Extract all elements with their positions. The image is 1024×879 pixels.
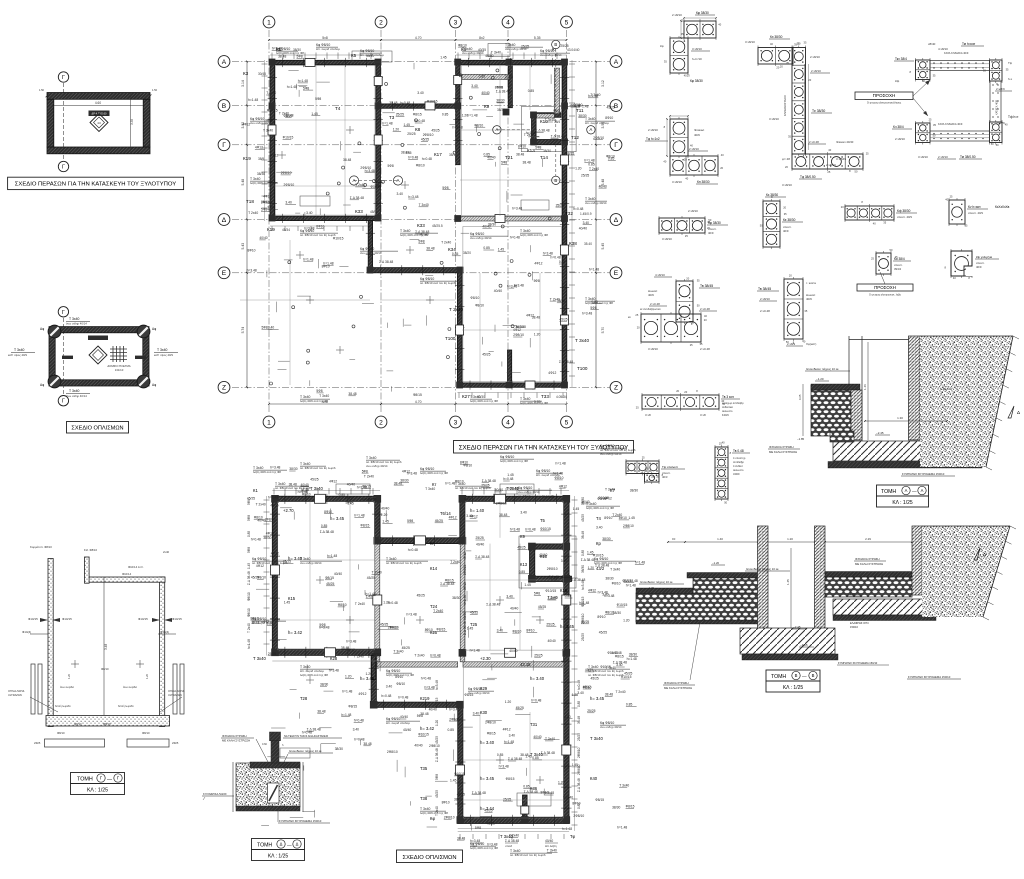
svg-text:Σ.Δ 38.48: Σ.Δ 38.48 bbox=[307, 728, 321, 732]
svg-text:8Ф10: 8Ф10 bbox=[390, 625, 398, 629]
svg-text:38/30: 38/30 bbox=[263, 536, 271, 540]
svg-text:К40: К40 bbox=[590, 776, 598, 781]
section G-G annotations bbox=[8, 545, 185, 745]
svg-text:όλ. Ф8/10 ανά τον Кη λωρίδ: όλ. Ф8/10 ανά τον Кη λωρίδ bbox=[300, 466, 336, 470]
svg-text:Ф10/15: Ф10/15 bbox=[267, 109, 278, 113]
svg-text:Т 2х40: Т 2х40 bbox=[548, 596, 558, 600]
svg-text:38/9: 38/9 bbox=[258, 157, 264, 161]
svg-text:h=0.48: h=0.48 bbox=[408, 156, 418, 160]
svg-text:h=0.48: h=0.48 bbox=[577, 680, 581, 690]
svg-text:Ф10/15: Ф10/15 bbox=[553, 109, 564, 113]
svg-text:5Ф8: 5Ф8 bbox=[435, 774, 439, 780]
svg-text:±0: ±0 bbox=[672, 537, 676, 541]
svg-text:38.48: 38.48 bbox=[343, 158, 351, 162]
svg-text:Δ: Δ bbox=[614, 217, 619, 224]
svg-text:Ф10/15: Ф10/15 bbox=[545, 589, 556, 593]
svg-text:2Ф8/10: 2Ф8/10 bbox=[284, 183, 295, 187]
svg-text:1.45: 1.45 bbox=[450, 779, 457, 783]
svg-text:ΚΛ : 1/25: ΚΛ : 1/25 bbox=[87, 788, 108, 794]
svg-text:30/45: 30/45 bbox=[258, 72, 266, 76]
detail D-D bbox=[202, 732, 342, 823]
svg-text:h= 3.45: h= 3.45 bbox=[560, 624, 575, 629]
svg-text:Ф10/15: Ф10/15 bbox=[371, 185, 382, 189]
svg-text:ΚΑΤΑ.ΚΛΙΜΑΚΑ 40/9: ΚΑΤΑ.ΚΛΙΜΑΚΑ 40/9 bbox=[938, 122, 963, 126]
svg-text:όλ. Ф8/10 ανά τον Кη λωρίδ: όλ. Ф8/10 ανά τον Кη λωρίδ bbox=[300, 233, 336, 237]
svg-text:38/4: 38/4 bbox=[554, 120, 560, 124]
svg-text:3 х8: 3 х8 bbox=[700, 413, 706, 417]
top plan: walls room A (grid1-2) bbox=[270, 60, 381, 273]
svg-text:Т 2х40: Т 2х40 bbox=[435, 806, 439, 816]
svg-text:h-ст/10: h-ст/10 bbox=[692, 57, 702, 61]
svg-text:1.45: 1.45 bbox=[347, 501, 354, 505]
svg-text:h=0.48: h=0.48 bbox=[363, 216, 373, 220]
svg-text:Ф8/10: Ф8/10 bbox=[463, 463, 472, 467]
svg-text:Г: Г bbox=[62, 165, 65, 171]
bottom plan: scattered annotations bbox=[247, 460, 645, 852]
detail d12 small notch bbox=[945, 249, 1000, 280]
svg-text:h=0.48: h=0.48 bbox=[398, 696, 408, 700]
svg-text:άνω λωρίδα: άνω λωρίδα bbox=[123, 685, 137, 689]
svg-text:Е: Е bbox=[222, 270, 227, 277]
detail d6 vbar bbox=[760, 193, 803, 249]
svg-text:1.45/0.9: 1.45/0.9 bbox=[580, 212, 592, 216]
svg-text:Тє 38/30: Тє 38/30 bbox=[812, 109, 825, 113]
svg-text:h=3.48: h=3.48 bbox=[304, 227, 314, 231]
svg-text:1.20: 1.20 bbox=[393, 128, 400, 132]
svg-text:h=1.48: h=1.48 bbox=[627, 657, 637, 661]
svg-text:38.48: 38.48 bbox=[348, 392, 356, 396]
svg-text:h=1.48: h=1.48 bbox=[562, 827, 572, 831]
svg-text:3.40: 3.40 bbox=[285, 201, 292, 205]
svg-text:5Ф8: 5Ф8 bbox=[590, 306, 596, 310]
svg-text:0.85: 0.85 bbox=[528, 89, 535, 93]
svg-text:Т 2х40: Т 2х40 bbox=[433, 609, 443, 613]
svg-text:К19: К19 bbox=[267, 227, 275, 232]
svg-text:40/40: 40/40 bbox=[482, 224, 490, 228]
svg-text:38.48: 38.48 bbox=[532, 315, 540, 319]
prosoxh box 1 bbox=[855, 80, 930, 116]
svg-text:4Ф12: 4Ф12 bbox=[242, 122, 250, 126]
svg-text:1.45: 1.45 bbox=[311, 112, 318, 116]
svg-text:38/30: 38/30 bbox=[463, 612, 467, 620]
svg-text:h=0.48: h=0.48 bbox=[510, 236, 520, 240]
svg-text:Δπ. λωριδ υποδομ: Δπ. λωριδ υποδομ bbox=[386, 721, 410, 725]
svg-text:h=3.48: h=3.48 bbox=[581, 580, 585, 590]
svg-text:3 х8/10: 3 х8/10 bbox=[782, 183, 792, 187]
svg-text:ΜΕ ΚΑΛΗ ΣΥΣΤΡΩΣΗ: ΜΕ ΚΑΛΗ ΣΥΣΤΡΩΣΗ bbox=[222, 739, 250, 743]
svg-text:h=0.48: h=0.48 bbox=[408, 548, 418, 552]
svg-text:0.85: 0.85 bbox=[577, 701, 581, 707]
svg-text:45/25: 45/25 bbox=[487, 821, 495, 825]
svg-text:2 х0.48: 2 х0.48 bbox=[760, 309, 770, 313]
svg-text:0.85: 0.85 bbox=[448, 728, 455, 732]
svg-text:Т 2х40: Т 2х40 bbox=[616, 690, 626, 694]
bottom plan: inner room bbox=[519, 536, 576, 588]
svg-text:5Ф8: 5Ф8 bbox=[417, 714, 423, 718]
svg-text:4Ф12: 4Ф12 bbox=[588, 588, 596, 592]
svg-text:Ф8/10: Ф8/10 bbox=[574, 103, 583, 107]
svg-text:h=1.48: h=1.48 bbox=[248, 98, 258, 102]
svg-text:Δπ.λαβη: Δπ.λαβη bbox=[545, 844, 557, 848]
svg-text:2Ф8/10: 2Ф8/10 bbox=[265, 518, 276, 522]
svg-text:ΠΡΟΣΟΧΗ: ΠΡΟΣΟΧΗ bbox=[874, 285, 896, 290]
svg-text:40/40: 40/40 bbox=[381, 507, 389, 511]
svg-text:4Ф12: 4Ф12 bbox=[263, 194, 271, 198]
svg-text:5Ф8: 5Ф8 bbox=[407, 519, 413, 523]
svg-text:h=1.48: h=1.48 bbox=[504, 740, 514, 744]
svg-text:К27: К27 bbox=[462, 394, 470, 399]
svg-text:4 υποστηρ: 4 υποστηρ bbox=[733, 456, 746, 460]
svg-text:Σ.Δ 38.48: Σ.Δ 38.48 bbox=[350, 196, 364, 200]
svg-text:25/25: 25/25 bbox=[534, 653, 542, 657]
svg-text:h=3.48: h=3.48 bbox=[346, 639, 356, 643]
svg-text:υποδ: υποδ bbox=[470, 844, 477, 848]
svg-text:1.50: 1.50 bbox=[152, 88, 158, 92]
svg-text:1.45: 1.45 bbox=[440, 55, 447, 59]
svg-text:Тφ: Тφ bbox=[570, 834, 576, 839]
svg-text:2 х8/10: 2 х8/10 bbox=[760, 297, 770, 301]
svg-text:Ф8/10: Ф8/10 bbox=[101, 667, 109, 671]
svg-text:0.85: 0.85 bbox=[591, 300, 598, 304]
svg-text:Т 3х40: Т 3х40 bbox=[425, 487, 435, 491]
svg-text:1.45: 1.45 bbox=[507, 473, 514, 477]
svg-text:2Ф8/10: 2Ф8/10 bbox=[513, 333, 524, 337]
svg-text:Σ40/9: Σ40/9 bbox=[722, 413, 729, 417]
detail d10 vbar bbox=[757, 274, 817, 346]
svg-text:38/30: 38/30 bbox=[496, 99, 504, 103]
svg-text:Т 3х40: Т 3х40 bbox=[491, 51, 501, 55]
svg-text:8Ф10: 8Ф10 bbox=[463, 582, 467, 590]
svg-text:Ф10/15: Ф10/15 bbox=[333, 237, 344, 241]
svg-text:2 х8/10: 2 х8/10 bbox=[689, 147, 699, 151]
svg-text:1.20: 1.20 bbox=[267, 622, 274, 626]
svg-text:2Ф25: 2Ф25 bbox=[172, 741, 179, 745]
svg-text:Οι ρωγμες ηλεκτροσυγκολλησης: Οι ρωγμες ηλεκτροσυγκολλησης bbox=[867, 102, 902, 105]
svg-text:−2.45: −2.45 bbox=[876, 431, 884, 435]
svg-text:Σ.Δ 38.48: Σ.Δ 38.48 bbox=[379, 260, 393, 264]
svg-text:Тв 3 κατ: Тв 3 κατ bbox=[722, 395, 734, 399]
svg-text:40/40: 40/40 bbox=[548, 639, 556, 643]
svg-text:ΣΧΕΔΙΟ ΟΠΛΙΣΜΩΝ: ΣΧΕΔΙΟ ΟΠΛΙΣΜΩΝ bbox=[402, 855, 456, 861]
svg-text:Т 2х40: Т 2х40 bbox=[247, 623, 251, 633]
svg-text:1.45: 1.45 bbox=[498, 248, 505, 252]
svg-text:38/30: 38/30 bbox=[497, 108, 505, 112]
svg-text:340/9: 340/9 bbox=[733, 472, 740, 476]
svg-text:К13: К13 bbox=[520, 562, 528, 567]
svg-text:διπλή λωρίδα: διπλή λωρίδα bbox=[55, 704, 71, 708]
svg-text:−1.20: −1.20 bbox=[712, 561, 720, 565]
svg-text:38/30: 38/30 bbox=[630, 488, 638, 492]
svg-text:Тв 0.48: Тв 0.48 bbox=[733, 449, 744, 453]
svg-text:2 х8/9: 2 х8/9 bbox=[787, 342, 796, 346]
svg-text:40/9: 40/9 bbox=[648, 293, 654, 297]
svg-text:45/25: 45/25 bbox=[417, 594, 425, 598]
svg-text:Тφ h=1х2: Тφ h=1х2 bbox=[646, 137, 660, 141]
top plan: edge tick rows bbox=[262, 44, 576, 399]
svg-text:5Ф8: 5Ф8 bbox=[247, 515, 251, 521]
svg-text:В: В bbox=[554, 178, 557, 183]
svg-text:40/3: 40/3 bbox=[662, 475, 668, 479]
svg-text:1.20: 1.20 bbox=[787, 537, 793, 541]
svg-text:38/30: 38/30 bbox=[400, 479, 408, 483]
small plan 2 (reinforcement scheme) bbox=[8, 307, 178, 406]
bottom plan: corner blobs bbox=[271, 495, 570, 824]
svg-text:25/25: 25/25 bbox=[396, 113, 404, 117]
svg-text:8Ф10: 8Ф10 bbox=[324, 510, 332, 514]
svg-text:45/25: 45/25 bbox=[435, 736, 439, 744]
svg-text:h=1.48: h=1.48 bbox=[463, 595, 467, 605]
svg-text:Г: Г bbox=[62, 75, 65, 81]
svg-text:Ф10/15: Ф10/15 bbox=[28, 617, 38, 621]
svg-text:h=0.48: h=0.48 bbox=[381, 694, 391, 698]
svg-text:Кг: Кг bbox=[430, 541, 434, 546]
svg-text:4 х8/10: 4 х8/10 bbox=[938, 47, 948, 51]
svg-text:45/25: 45/25 bbox=[484, 809, 492, 813]
svg-text:40/40: 40/40 bbox=[481, 91, 489, 95]
svg-text:h=3.48: h=3.48 bbox=[272, 47, 282, 51]
svg-text:Ф10/15: Ф10/15 bbox=[138, 617, 148, 621]
top plan: scattered annotations bbox=[242, 43, 616, 398]
svg-text:К8: К8 bbox=[415, 127, 421, 132]
svg-text:Ф8/10: Ф8/10 bbox=[302, 493, 311, 497]
svg-text:h=3.48: h=3.48 bbox=[270, 465, 280, 469]
svg-text:h=3.48: h=3.48 bbox=[544, 791, 554, 795]
svg-text:1.46: 1.46 bbox=[863, 384, 867, 390]
top plan: dimension rows bbox=[241, 36, 605, 405]
svg-text:Σιδ. Ф8/10: Σιδ. Ф8/10 bbox=[84, 548, 97, 552]
svg-text:1.20: 1.20 bbox=[575, 167, 582, 171]
svg-text:40/40: 40/40 bbox=[485, 54, 493, 58]
detail d2 L-column bbox=[645, 115, 724, 184]
bottom plan: D-level hatched + lower walls bbox=[371, 656, 569, 824]
svg-text:1.45: 1.45 bbox=[524, 583, 531, 587]
svg-text:ανω σιδηρ 40/14: ανω σιδηρ 40/14 bbox=[300, 561, 322, 565]
svg-text:3.40: 3.40 bbox=[473, 712, 480, 716]
svg-text:Т100: Т100 bbox=[445, 336, 456, 341]
svg-text:2Ф8/10: 2Ф8/10 bbox=[547, 567, 558, 571]
svg-text:45/25: 45/25 bbox=[516, 706, 524, 710]
svg-text:А: А bbox=[222, 59, 227, 66]
svg-text:αποστ. 40/9: αποστ. 40/9 bbox=[897, 215, 912, 219]
svg-text:35.40: 35.40 bbox=[584, 242, 592, 246]
svg-text:5Ф8: 5Ф8 bbox=[319, 623, 325, 627]
svg-text:40/9: 40/9 bbox=[783, 229, 789, 233]
svg-text:Ф10/14: Ф10/14 bbox=[122, 572, 132, 576]
svg-text:2Ф8/10: 2Ф8/10 bbox=[623, 524, 634, 528]
svg-text:h=1.48: h=1.48 bbox=[247, 639, 251, 649]
svg-text:3.40: 3.40 bbox=[417, 91, 424, 95]
svg-text:Ф8/10: Ф8/10 bbox=[474, 123, 483, 127]
svg-text:ΜΕ ΚΑΛΗ ΣΥΣΤΡΩΣΗ: ΜΕ ΚΑΛΗ ΣΥΣΤΡΩΣΗ bbox=[769, 450, 797, 454]
svg-text:Кφ 38/30: Кφ 38/30 bbox=[690, 79, 703, 83]
svg-text:h=1.48: h=1.48 bbox=[342, 689, 352, 693]
svg-text:3 х8: 3 х8 bbox=[645, 413, 651, 417]
svg-text:άνω σιδηρ 40/14: άνω σιδηρ 40/14 bbox=[66, 322, 87, 326]
svg-text:Ф8/15: Ф8/15 bbox=[360, 524, 369, 528]
svg-text:Т 3х40: Т 3х40 bbox=[563, 796, 573, 800]
svg-text:38/30: 38/30 bbox=[602, 537, 610, 541]
svg-text:h=0.48: h=0.48 bbox=[422, 157, 432, 161]
svg-text:Хφ(κατ): Хφ(κατ) bbox=[806, 342, 816, 346]
detail d9 L bbox=[628, 273, 720, 351]
svg-text:Т 3х40: Т 3х40 bbox=[610, 567, 620, 571]
svg-text:25/25: 25/25 bbox=[503, 797, 511, 801]
svg-text:Ф8/10: Ф8/10 bbox=[74, 722, 82, 726]
svg-text:5Ф8: 5Ф8 bbox=[388, 164, 394, 168]
svg-text:38.48: 38.48 bbox=[426, 247, 434, 251]
svg-text:Ткх 38/4: Ткх 38/4 bbox=[895, 57, 907, 61]
svg-text:2 х8.10: 2 х8.10 bbox=[826, 163, 836, 167]
svg-text:3.40: 3.40 bbox=[596, 526, 603, 530]
svg-text:38/30: 38/30 bbox=[452, 596, 460, 600]
svg-text:ULTRAΖΩΝ: ULTRAΖΩΝ bbox=[168, 693, 182, 697]
svg-text:h=1.48: h=1.48 bbox=[341, 713, 351, 717]
svg-text:Ф8/10: Ф8/10 bbox=[57, 731, 65, 735]
svg-text:2 х0.48: 2 х0.48 bbox=[650, 302, 660, 306]
svg-text:1.45: 1.45 bbox=[786, 579, 790, 585]
svg-text:25/25: 25/25 bbox=[476, 536, 484, 540]
svg-text:38.48: 38.48 bbox=[363, 742, 371, 746]
svg-text:Т 2х40: Т 2х40 bbox=[355, 602, 365, 606]
detail d3 big L bbox=[745, 35, 869, 187]
svg-text:4.05/34: 4.05/34 bbox=[556, 395, 567, 399]
svg-text:40/40: 40/40 bbox=[420, 233, 428, 237]
svg-text:4Ф12: 4Ф12 bbox=[548, 371, 556, 375]
svg-text:40/40: 40/40 bbox=[539, 553, 547, 557]
svg-text:Ф8/15: Ф8/15 bbox=[506, 777, 515, 781]
svg-text:Ф8/15: Ф8/15 bbox=[325, 576, 334, 580]
svg-text:40/40: 40/40 bbox=[403, 728, 411, 732]
svg-text:38/30: 38/30 bbox=[265, 119, 273, 123]
svg-text:Ф10/15: Ф10/15 bbox=[172, 617, 182, 621]
svg-text:3.40: 3.40 bbox=[509, 734, 516, 738]
svg-text:1.20: 1.20 bbox=[145, 673, 149, 679]
svg-text:4.70: 4.70 bbox=[415, 400, 422, 404]
svg-text:Ф10/Д: Ф10/Д bbox=[22, 630, 30, 634]
svg-text:А: А bbox=[590, 127, 593, 132]
svg-text:ΜΕ ΚΑΛΗ ΣΥΣΤΡΩΣΗ: ΜΕ ΚΑΛΗ ΣΥΣΤΡΩΣΗ bbox=[664, 686, 692, 690]
svg-text:Эпикал 40/40: Эпикал 40/40 bbox=[836, 140, 854, 144]
svg-text:Σ.Δ 38.48: Σ.Δ 38.48 bbox=[559, 360, 573, 364]
svg-text:Ф8/10: Ф8/10 bbox=[555, 476, 564, 480]
svg-text:ΟΠΛΙΑ ΛΩΡΙΔ: ΟΠΛΙΑ ΛΩΡΙΔ bbox=[168, 689, 185, 693]
svg-text:—: — bbox=[107, 777, 112, 783]
svg-text:0.85: 0.85 bbox=[581, 550, 585, 556]
svg-text:40/40: 40/40 bbox=[487, 156, 495, 160]
svg-text:Аφ: Аφ bbox=[152, 327, 156, 331]
svg-text:Z: Z bbox=[222, 385, 226, 392]
svg-text:5.74: 5.74 bbox=[241, 327, 245, 334]
svg-text:Кэ 38/30: Кэ 38/30 bbox=[770, 35, 783, 39]
svg-text:40/40: 40/40 bbox=[334, 572, 342, 576]
svg-text:25/25: 25/25 bbox=[581, 173, 589, 177]
svg-text:2 х8/10: 2 х8/10 bbox=[811, 69, 821, 73]
svg-text:3 1.545: 3 1.545 bbox=[836, 157, 846, 161]
svg-text:Ф8/10: Ф8/10 bbox=[458, 43, 467, 47]
svg-text:Кψ ух/κу/ум: Кψ ух/κу/ум bbox=[976, 255, 992, 259]
svg-text:Кз 38/30: Кз 38/30 bbox=[766, 193, 778, 197]
svg-text:25/25: 25/25 bbox=[546, 622, 554, 626]
svg-text:45/25.5: 45/25.5 bbox=[432, 224, 443, 228]
svg-text:2Ф25: 2Ф25 bbox=[34, 741, 41, 745]
svg-text:131/10: 131/10 bbox=[115, 368, 124, 372]
svg-text:Т12: Т12 bbox=[571, 135, 579, 140]
svg-text:ΙΣΧΝΑΚΙΑ ΣΤΡΩΣΗ: ΙΣΧΝΑΚΙΑ ΣΤΡΩΣΗ bbox=[769, 445, 794, 449]
svg-text:К9: К9 bbox=[484, 104, 490, 109]
svg-text:40/40: 40/40 bbox=[545, 839, 553, 843]
svg-text:5.43: 5.43 bbox=[241, 243, 245, 250]
svg-text:3.40: 3.40 bbox=[397, 192, 404, 196]
svg-text:h=0.48: h=0.48 bbox=[430, 653, 440, 657]
svg-text:4Ф12: 4Ф12 bbox=[255, 146, 263, 150]
svg-text:h=3.48: h=3.48 bbox=[470, 839, 480, 843]
svg-text:КзХзХзХв: КзХзХзХв bbox=[995, 205, 1010, 209]
svg-text:Кє 38/30: Кє 38/30 bbox=[783, 218, 796, 222]
svg-text:2Ф8/10: 2Ф8/10 bbox=[261, 201, 272, 205]
section B-B title bbox=[766, 670, 820, 692]
svg-text:h=1.48: h=1.48 bbox=[298, 79, 308, 83]
svg-text:h=3.48: h=3.48 bbox=[512, 206, 522, 210]
svg-text:45/25: 45/25 bbox=[599, 630, 607, 634]
bottom plan: offset outlines and wall ticks bbox=[267, 491, 575, 832]
svg-text:h=1.48: h=1.48 bbox=[327, 554, 337, 558]
svg-text:5Ф8: 5Ф8 bbox=[501, 161, 507, 165]
svg-text:ΤΟΜΗ: ΤΟΜΗ bbox=[77, 777, 93, 783]
svg-text:Т4: Т4 bbox=[596, 516, 602, 521]
svg-text:1.45: 1.45 bbox=[284, 600, 291, 604]
svg-text:2Ф8/10: 2Ф8/10 bbox=[281, 171, 292, 175]
svg-text:0.85: 0.85 bbox=[559, 260, 566, 264]
svg-text:ανω σιδηρ 40/14: ανω σιδηρ 40/14 bbox=[540, 53, 562, 57]
svg-text:Т 2х40: Т 2х40 bbox=[256, 503, 266, 507]
svg-text:ΣΥΜΠΑΓΕΣ ΣΚΥΡΟΔΕΜΑ 150/10: ΣΥΜΠΑΓΕΣ ΣΚΥΡΟΔΕΜΑ 150/10 bbox=[838, 661, 878, 665]
svg-text:5Ф8: 5Ф8 bbox=[316, 389, 322, 393]
svg-text:Ф10/Д: Ф10/Д bbox=[160, 630, 168, 634]
svg-text:ΙΣΧΝΑΚΙΑ ΣΤΡΩΣΗ: ΙΣΧΝΑΚΙΑ ΣΤΡΩΣΗ bbox=[222, 734, 247, 738]
svg-text:καθ΄ ύψος 40/9: καθ΄ ύψος 40/9 bbox=[8, 353, 27, 357]
svg-text:2Ф8/10: 2Ф8/10 bbox=[577, 764, 581, 775]
svg-text:h=0.48: h=0.48 bbox=[508, 487, 518, 491]
svg-text:Ф8/15: Ф8/15 bbox=[626, 805, 635, 809]
svg-text:38/30: 38/30 bbox=[257, 172, 265, 176]
svg-text:5Ф8: 5Ф8 bbox=[442, 186, 448, 190]
svg-text:8Ф10: 8Ф10 bbox=[495, 86, 503, 90]
svg-text:Ф8/10: Ф8/10 bbox=[470, 296, 479, 300]
svg-text:25/25: 25/25 bbox=[521, 44, 529, 48]
svg-text:4Ф12: 4Ф12 bbox=[256, 564, 264, 568]
svg-text:38/30: 38/30 bbox=[578, 114, 586, 118]
svg-text:38/30: 38/30 bbox=[543, 149, 551, 153]
svg-text:4Ф12: 4Ф12 bbox=[559, 484, 567, 488]
svg-text:3.40: 3.40 bbox=[386, 685, 393, 689]
svg-text:1.20: 1.20 bbox=[366, 672, 373, 676]
svg-text:2 х0.48: 2 х0.48 bbox=[700, 347, 710, 351]
detail d1 L-column bbox=[660, 11, 722, 83]
svg-text:38.48: 38.48 bbox=[577, 716, 581, 724]
svg-text:Т 3х40: Т 3х40 bbox=[69, 317, 79, 321]
svg-text:ΝΑ ΤΕΘΟΥΝ ΤΑΚΟΙ ΑΝΑ ΔΙΑΣΤΑΣΕΙΣ: ΝΑ ΤΕΘΟΥΝ ΤΑΚΟΙ ΑΝΑ ΔΙΑΣΤΑΣΕΙΣ bbox=[284, 734, 328, 738]
svg-text:3 х8/10: 3 х8/10 bbox=[662, 237, 672, 241]
svg-text:Т 3х40: Т 3х40 bbox=[575, 338, 589, 343]
svg-text:8Ф10: 8Ф10 bbox=[518, 145, 526, 149]
svg-text:άνω λωρίδα: άνω λωρίδα bbox=[60, 685, 74, 689]
svg-text:h=1.48: h=1.48 bbox=[617, 825, 627, 829]
svg-text:h=1.48: h=1.48 bbox=[467, 114, 477, 118]
svg-text:8Ф10: 8Ф10 bbox=[316, 225, 324, 229]
svg-text:1.45: 1.45 bbox=[247, 563, 251, 569]
svg-text:Σ.Δ 38.48: Σ.Δ 38.48 bbox=[577, 778, 581, 792]
svg-text:5: 5 bbox=[565, 419, 569, 426]
